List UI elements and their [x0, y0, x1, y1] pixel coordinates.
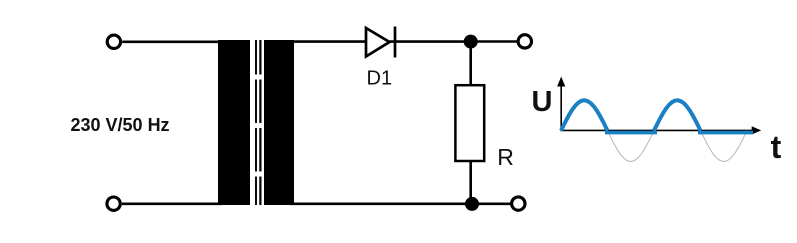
- terminal top-left: [107, 35, 120, 48]
- wire resistor down to node B: [469, 162, 472, 204]
- wire diode to node A: [389, 40, 470, 43]
- svg-text:230 V/50 Hz: 230 V/50 Hz: [71, 115, 170, 135]
- svg-text:R: R: [497, 144, 514, 170]
- rectified output zero segment 2 (blue flat): [698, 131, 753, 135]
- rectified output zero segment 1 (blue flat): [605, 131, 657, 135]
- transformer core line left: [255, 40, 257, 205]
- junction node A: [464, 35, 478, 49]
- diode D1 anode triangle: [366, 28, 390, 57]
- svg-text:D1: D1: [367, 68, 393, 90]
- graph U axis arrowhead: [557, 77, 565, 87]
- rectified output half-sine hump 2 (blue): [654, 100, 701, 130]
- terminal top-right output: [518, 35, 531, 48]
- svg-text:t: t: [771, 129, 782, 165]
- transformer T1 secondary winding bar: [264, 40, 294, 205]
- wire node A to output terminal: [471, 40, 517, 43]
- terminal bottom-left: [107, 197, 120, 210]
- transformer core line right: [259, 40, 261, 205]
- graph U axis (vertical): [560, 84, 562, 131]
- wire top primary: [122, 40, 222, 43]
- svg-text:U: U: [532, 86, 553, 118]
- diode D1 cathode bar: [394, 27, 397, 58]
- wire bottom secondary: [290, 203, 512, 206]
- wire node A down to resistor: [469, 42, 472, 85]
- transformer T1 primary winding bar: [218, 40, 250, 205]
- rectified output half-sine hump 1 (blue): [561, 100, 608, 130]
- wire top secondary: [290, 40, 367, 43]
- terminal bottom-right output: [512, 197, 525, 210]
- graph t axis (horizontal): [561, 129, 754, 131]
- resistor R: [455, 85, 484, 161]
- wire bottom primary: [122, 203, 222, 206]
- junction node B: [465, 197, 479, 211]
- graph t axis arrowhead: [752, 126, 762, 134]
- input sine reference curve (thin gray): [561, 100, 747, 162]
